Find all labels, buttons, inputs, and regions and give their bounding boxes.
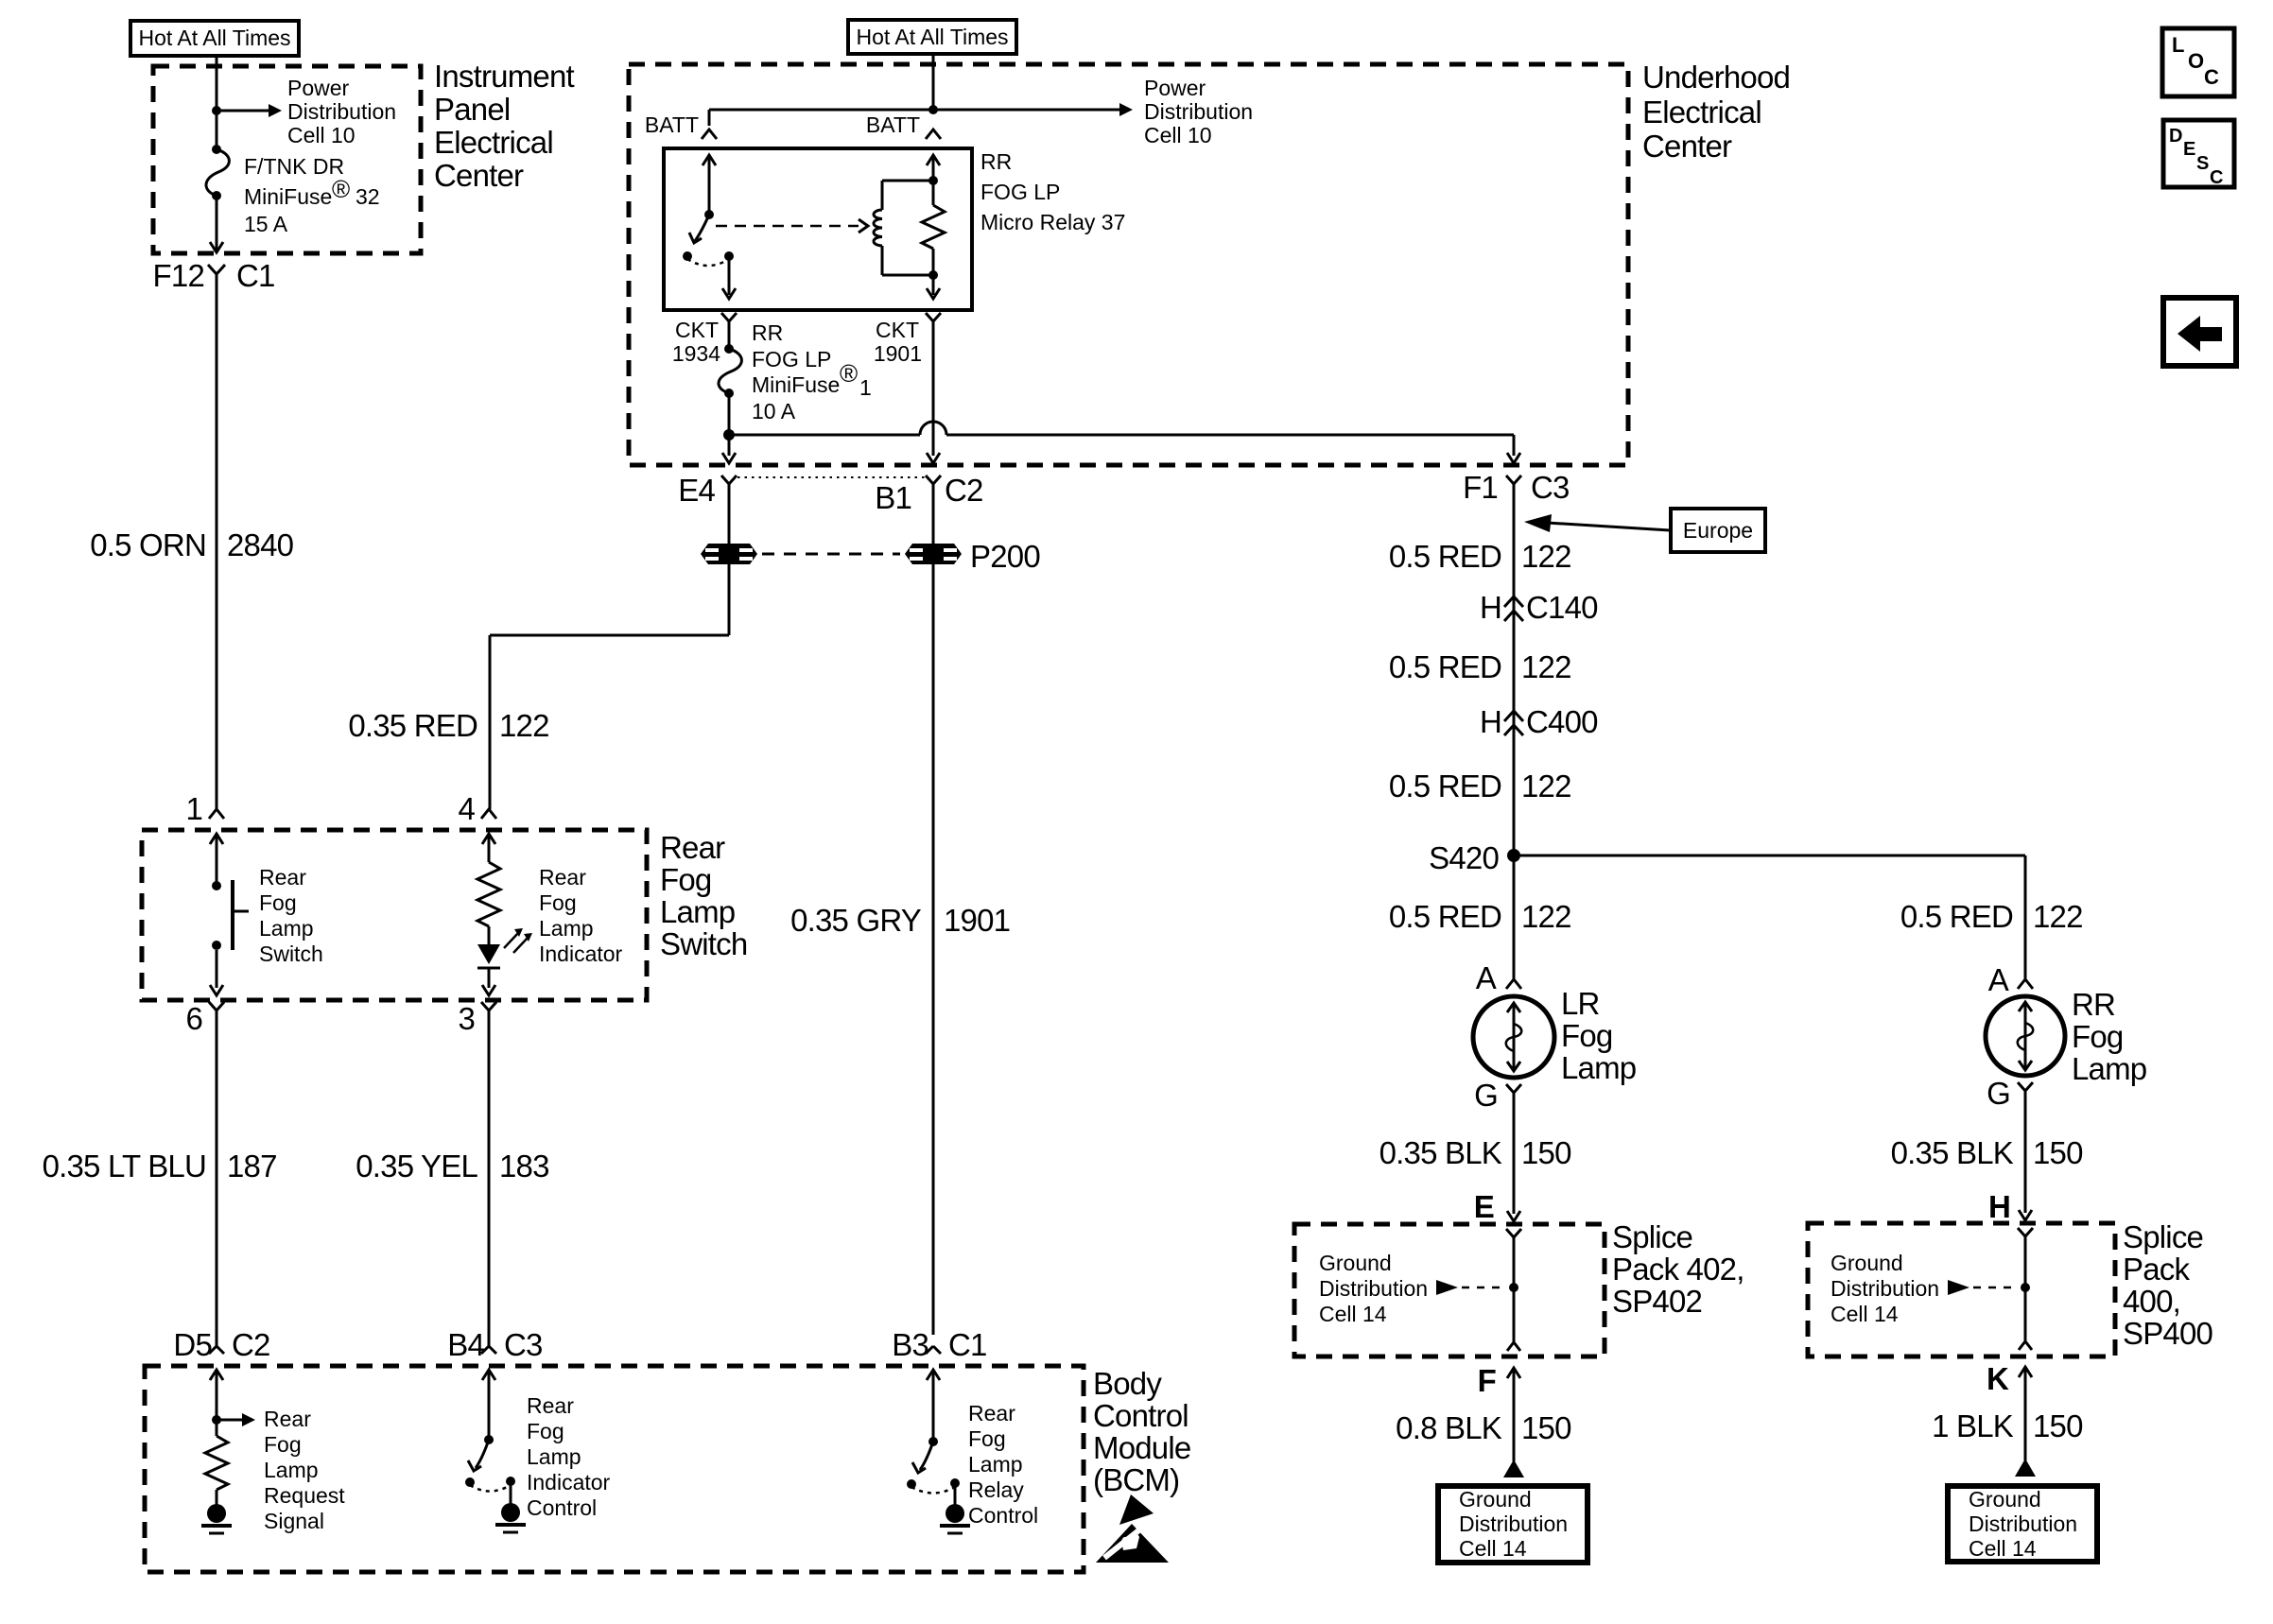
connector pin D5 C2 (173, 1327, 269, 1362)
svg-text:Rear: Rear (259, 865, 306, 890)
svg-text:Europe: Europe (1683, 518, 1753, 543)
svg-text:0.8 BLK: 0.8 BLK (1396, 1410, 1502, 1445)
svg-text:E: E (2183, 139, 2195, 160)
label box Hot At All Times (left) (130, 21, 299, 56)
svg-text:15 A: 15 A (244, 212, 288, 236)
node splice S420 (1429, 840, 1520, 875)
pin A of RR fog lamp (1988, 962, 2033, 997)
svg-text:MiniFuse: MiniFuse (752, 372, 840, 397)
label Ground Distribution Cell 14 (SP400) (1831, 1251, 1939, 1326)
svg-text:Switch: Switch (660, 926, 747, 961)
wire label 0.5 ORN 2840 (90, 527, 293, 562)
node junction dot at fuse feed (212, 106, 221, 115)
svg-text:Electrical: Electrical (434, 125, 553, 160)
svg-text:D: D (2169, 126, 2182, 147)
svg-text:Ground: Ground (1831, 1251, 1903, 1275)
svg-text:0.5 RED: 0.5 RED (1389, 769, 1501, 803)
wire label 0.5 RED 122 (below C400) (1389, 769, 1571, 803)
connector pin B3 C1 (892, 1327, 986, 1362)
inline connector H C400 (1480, 704, 1598, 739)
svg-text:150: 150 (2033, 1408, 2083, 1443)
svg-text:Cell 10: Cell 10 (1144, 123, 1212, 147)
svg-text:1934: 1934 (672, 341, 720, 366)
svg-text:400,: 400, (2123, 1284, 2180, 1319)
wire label 0.5 RED 122 (RR lamp) (1900, 899, 2083, 934)
svg-text:6: 6 (185, 1001, 202, 1036)
svg-text:D5: D5 (173, 1327, 212, 1362)
inline connector P200 right half (905, 544, 962, 564)
icon box LOC (2162, 28, 2234, 96)
pin H of splice pack 400 (1988, 1189, 2010, 1224)
svg-text:Body: Body (1093, 1366, 1162, 1401)
svg-text:Cell 14: Cell 14 (1831, 1302, 1899, 1326)
svg-text:S: S (2196, 153, 2209, 174)
svg-text:Pack: Pack (2123, 1252, 2190, 1287)
svg-text:FOG LP: FOG LP (980, 180, 1060, 204)
svg-text:C140: C140 (1526, 590, 1598, 625)
wire label 0.5 RED 122 (LR lamp) (1389, 899, 1571, 934)
relay coil (874, 181, 933, 275)
pin 3 of rear fog lamp switch (458, 1001, 496, 1036)
value label F/TNK DR MiniFuse 32 15 A (244, 154, 380, 236)
title Rear Fog Lamp Switch (660, 830, 747, 961)
svg-text:1901: 1901 (944, 903, 1010, 938)
svg-text:C400: C400 (1526, 704, 1598, 739)
svg-text:C2: C2 (945, 473, 983, 508)
label box Hot At All Times (center) (848, 20, 1016, 54)
svg-text:K: K (1987, 1361, 2009, 1396)
svg-text:B3: B3 (892, 1327, 928, 1362)
label Power Distribution Cell 10 (center) (1144, 76, 1253, 147)
svg-text:Cell 10: Cell 10 (287, 123, 356, 147)
svg-text:Relay: Relay (968, 1477, 1024, 1502)
svg-text:Ground: Ground (1319, 1251, 1392, 1275)
svg-text:Fog: Fog (968, 1426, 1006, 1451)
wire label 0.5 RED 122 (below C140) (1389, 649, 1571, 684)
svg-text:C: C (2210, 167, 2223, 188)
Instrument Panel Electrical Center dashed box (153, 66, 421, 253)
svg-text:O: O (2188, 49, 2204, 73)
svg-text:0.5 RED: 0.5 RED (1900, 899, 2013, 934)
wire label 0.35 BLK 150 (RR) (1891, 1135, 2083, 1170)
svg-text:L: L (2172, 33, 2184, 57)
wire BATT feed with arrow to Power Distribution Cell 10 (709, 103, 1133, 126)
svg-text:Switch: Switch (259, 942, 323, 966)
svg-text:B1: B1 (875, 480, 911, 515)
request signal resistor branch (BCM) (201, 1370, 255, 1533)
wire LT BLU 187 (216, 1026, 218, 1346)
title Splice Pack 402 SP402 (1612, 1219, 1744, 1319)
svg-text:Distribution: Distribution (1831, 1276, 1939, 1301)
label Power Distribution Cell 10 (left) (287, 76, 396, 147)
wire S420 branch to RR fog lamp (1514, 855, 2025, 979)
svg-text:Fog: Fog (539, 890, 577, 915)
svg-text:1901: 1901 (874, 341, 922, 366)
wire E4 exit arrow (722, 435, 736, 463)
svg-text:Distribution: Distribution (1319, 1276, 1428, 1301)
wire YEL 183 (488, 1026, 491, 1346)
pin BATT right of relay (866, 112, 941, 139)
svg-text:Center: Center (1642, 129, 1732, 164)
relay box RR FOG LP Micro Relay 37 (664, 148, 972, 310)
svg-text:122: 122 (2033, 899, 2083, 934)
svg-text:C: C (2204, 65, 2219, 89)
svg-text:Distribution: Distribution (1969, 1512, 2077, 1536)
svg-text:SP400: SP400 (2123, 1316, 2213, 1351)
svg-text:H: H (1988, 1189, 2010, 1224)
wire label 0.8 BLK 150 (1396, 1410, 1571, 1445)
rear fog lamp switch dashed box (142, 830, 647, 1000)
svg-text:Request: Request (264, 1483, 345, 1508)
svg-text:122: 122 (1521, 539, 1571, 574)
svg-text:CKT: CKT (675, 318, 719, 342)
svg-text:Rear: Rear (264, 1407, 311, 1431)
wire RED 122 from E4 to switch pin 4 (490, 496, 729, 809)
svg-text:1: 1 (859, 375, 872, 400)
svg-text:Pack 402,: Pack 402, (1612, 1252, 1744, 1287)
wire fused feed to F1 with hop over CKT1901 wire (729, 422, 1520, 463)
indicator control switch (BCM) (465, 1370, 526, 1532)
label RR FOG LP Micro Relay 37 (980, 149, 1125, 234)
svg-text:122: 122 (1521, 769, 1571, 803)
svg-text:Hot At All Times: Hot At All Times (856, 25, 1008, 49)
svg-text:Ground: Ground (1459, 1487, 1532, 1512)
svg-text:122: 122 (499, 708, 549, 743)
svg-text:Distribution: Distribution (1459, 1512, 1568, 1536)
svg-text:Rear: Rear (527, 1393, 574, 1418)
pin G of RR fog lamp (1987, 1076, 2033, 1111)
title Splice Pack 400 SP400 (2123, 1219, 2213, 1351)
wire RED 122 right column F1 to S420 (1513, 496, 1516, 979)
svg-text:1 BLK: 1 BLK (1932, 1408, 2014, 1443)
pin E of splice pack 402 (1474, 1189, 1494, 1224)
svg-text:Rear: Rear (968, 1401, 1015, 1425)
wire circuit 2840 (216, 289, 218, 809)
svg-text:0.35 YEL: 0.35 YEL (356, 1149, 477, 1183)
svg-text:Module: Module (1093, 1430, 1190, 1465)
label box Ground Distribution Cell 14 (LR) (1438, 1486, 1588, 1563)
svg-text:LR: LR (1561, 986, 1600, 1021)
value label RR FOG LP MiniFuse 1 10 A (752, 320, 872, 423)
connector pin E4 (678, 473, 737, 508)
svg-text:P200: P200 (970, 539, 1040, 574)
label Rear Fog Lamp Indicator Control (527, 1393, 611, 1520)
svg-text:C2: C2 (232, 1327, 270, 1362)
wire label 0.35 YEL 183 (356, 1149, 548, 1183)
svg-text:Fog: Fog (1561, 1018, 1612, 1053)
svg-text:Lamp: Lamp (1561, 1050, 1636, 1085)
ground triangle (RR branch) (2015, 1459, 2036, 1477)
wire connector dashed link E4 to B1 (737, 476, 925, 478)
connector pin CKT 1901 (874, 313, 941, 366)
label Ground Distribution Cell 14 (SP402) (1319, 1251, 1428, 1326)
svg-text:Fog: Fog (660, 862, 711, 897)
svg-text:E: E (1474, 1189, 1494, 1224)
wire BLK 150 from LR lamp to splice (1507, 1106, 1520, 1221)
label box Ground Distribution Cell 14 (RR) (1948, 1486, 2097, 1562)
svg-text:183: 183 (499, 1149, 549, 1183)
svg-text:Splice: Splice (1612, 1219, 1692, 1254)
splice pack 400 dashed box (1808, 1223, 2115, 1356)
svg-text:122: 122 (1521, 649, 1571, 684)
relay control switch (BCM) (907, 1370, 970, 1533)
wire from Hot At All Times into IP electrical center (216, 56, 218, 149)
svg-text:Instrument: Instrument (434, 59, 575, 94)
title Underhood Electrical Center (1642, 60, 1790, 164)
wire label 1 BLK 150 (1932, 1408, 2083, 1443)
wire GRY 1901 from B1 to BCM (932, 496, 935, 1335)
svg-text:MiniFuse: MiniFuse (244, 184, 332, 209)
svg-text:32: 32 (356, 184, 380, 209)
svg-text:Micro Relay 37: Micro Relay 37 (980, 210, 1125, 234)
splice SP402 internal wire and node (1506, 1229, 1521, 1351)
svg-text:0.35 RED: 0.35 RED (348, 708, 477, 743)
svg-text:3: 3 (458, 1001, 475, 1036)
svg-text:0.35 BLK: 0.35 BLK (1891, 1135, 2014, 1170)
switch contact assembly (rear fog lamp switch) (210, 834, 249, 995)
svg-text:Control: Control (968, 1503, 1038, 1528)
svg-text:Rear: Rear (539, 865, 586, 890)
svg-text:(BCM): (BCM) (1093, 1462, 1179, 1497)
label P200 (970, 539, 1040, 574)
svg-text:150: 150 (1521, 1135, 1571, 1170)
pin G of LR fog lamp (1474, 1078, 1521, 1113)
pin 6 of rear fog lamp switch (185, 1001, 224, 1036)
node junction dot at fused feed (723, 429, 735, 441)
wire label 0.35 GRY 1901 (790, 903, 1010, 938)
relay resistor (922, 176, 945, 280)
wire label 0.5 RED 122 (below F1) (1389, 539, 1571, 574)
svg-text:SP402: SP402 (1612, 1284, 1702, 1319)
icon box DESC (2163, 120, 2234, 188)
svg-text:H: H (1480, 590, 1501, 625)
label LR Fog Lamp (1561, 986, 1636, 1085)
wire CKT1901 down to box edge (927, 335, 940, 463)
fuse RR FOG LP MiniFuse 1 10 A (719, 335, 741, 398)
connector pin B4 C3 (447, 1327, 542, 1362)
svg-text:Rear: Rear (660, 830, 725, 865)
svg-text:C3: C3 (1531, 470, 1570, 505)
svg-text:RR: RR (2072, 987, 2115, 1022)
inline connector H C140 (1480, 590, 1598, 625)
node junction dot BATT feed (928, 105, 938, 114)
lamp RR Fog Lamp (1986, 996, 2065, 1076)
svg-text:Power: Power (287, 76, 350, 100)
svg-text:0.35 LT BLU: 0.35 LT BLU (43, 1149, 206, 1183)
svg-text:Indicator: Indicator (527, 1470, 611, 1494)
wire dashed ground distribution arrow (SP400) (1948, 1280, 2019, 1295)
svg-text:Hot At All Times: Hot At All Times (138, 26, 290, 50)
svg-text:FOG LP: FOG LP (752, 347, 831, 371)
connector pin F12 C1 (153, 258, 275, 293)
Underhood Electrical Center dashed box (629, 64, 1628, 465)
relay switch arm and contacts (683, 155, 736, 299)
svg-text:Fog: Fog (527, 1419, 564, 1443)
wire dashed ground distribution arrow (SP402) (1436, 1280, 1507, 1295)
title Instrument Panel Electrical Center (434, 59, 575, 193)
svg-text:0.35 GRY: 0.35 GRY (790, 903, 922, 938)
svg-text:0.35 BLK: 0.35 BLK (1379, 1135, 1502, 1170)
inline connector P200 left half (701, 544, 757, 564)
pin 1 of rear fog lamp switch (185, 791, 224, 826)
svg-text:F1: F1 (1463, 470, 1498, 505)
label Rear Fog Lamp Relay Control (968, 1401, 1038, 1528)
wire dashed link P200 (762, 553, 900, 556)
svg-text:A: A (1988, 962, 2009, 997)
svg-text:Panel: Panel (434, 92, 510, 127)
wire label 0.35 RED 122 (348, 708, 548, 743)
svg-text:Cell 14: Cell 14 (1319, 1302, 1387, 1326)
svg-text:2840: 2840 (227, 527, 294, 562)
label Rear Fog Lamp Request Signal (264, 1407, 345, 1533)
relay right pin wires and arrows (927, 155, 940, 299)
connector pin CKT 1934 (672, 313, 737, 366)
wire label 0.35 BLK 150 (LR) (1379, 1135, 1571, 1170)
label Rear Fog Lamp Switch (inner) (259, 865, 323, 966)
svg-text:®: ® (332, 175, 350, 203)
svg-text:Fog: Fog (2072, 1019, 2123, 1054)
wire label 0.35 LT BLU 187 (43, 1149, 277, 1183)
svg-text:Ground: Ground (1969, 1487, 2041, 1512)
label box Europe with arrow (1524, 509, 1765, 552)
fuse F/TNK DR MiniFuse 32 15 A (206, 145, 229, 200)
svg-text:Fog: Fog (264, 1432, 302, 1457)
svg-text:122: 122 (1521, 899, 1571, 934)
svg-text:RR: RR (980, 149, 1012, 174)
title Body Control Module (BCM) (1093, 1366, 1190, 1497)
wire BLK 150 from RR lamp to splice (2019, 1104, 2032, 1220)
label RR Fog Lamp (2072, 987, 2146, 1086)
wire from fuse to junction (728, 393, 731, 435)
svg-text:Lamp: Lamp (264, 1458, 319, 1482)
svg-text:Cell 14: Cell 14 (1969, 1536, 2037, 1561)
svg-text:0.5 ORN: 0.5 ORN (90, 527, 206, 562)
svg-text:F12: F12 (153, 258, 204, 293)
svg-text:Center: Center (434, 158, 524, 193)
svg-text:Distribution: Distribution (1144, 99, 1253, 124)
svg-text:150: 150 (2033, 1135, 2083, 1170)
lamp LR Fog Lamp (1473, 996, 1554, 1078)
connector pin B1 C2 (875, 473, 982, 515)
indicator LED with resistor (rear fog lamp switch) (477, 834, 532, 995)
svg-text:A: A (1476, 960, 1497, 995)
svg-text:Control: Control (1093, 1398, 1189, 1433)
svg-text:F: F (1478, 1363, 1496, 1398)
svg-text:Control: Control (527, 1495, 597, 1520)
svg-text:Lamp: Lamp (527, 1444, 581, 1469)
svg-text:0.5 RED: 0.5 RED (1389, 649, 1501, 684)
wire with arrow leaving IP box bottom (210, 196, 223, 252)
relay coil control dashed line (716, 219, 868, 233)
svg-text:BATT: BATT (866, 112, 920, 137)
connector pin F1 C3 (1463, 470, 1570, 505)
svg-text:Fog: Fog (259, 890, 297, 915)
pin F wire up arrow from ground (1478, 1363, 1520, 1461)
label Rear Fog Lamp Indicator (inner) (539, 865, 623, 966)
svg-text:Electrical: Electrical (1642, 95, 1761, 130)
svg-text:CKT: CKT (876, 318, 919, 342)
svg-text:RR: RR (752, 320, 783, 345)
svg-text:Lamp: Lamp (2072, 1051, 2146, 1086)
svg-text:0.5 RED: 0.5 RED (1389, 539, 1501, 574)
svg-text:C1: C1 (236, 258, 275, 293)
svg-text:Underhood: Underhood (1642, 60, 1790, 95)
svg-text:Cell 14: Cell 14 (1459, 1536, 1527, 1561)
wire from Hot At All Times into Underhood center (932, 54, 935, 110)
svg-text:Splice: Splice (2123, 1219, 2203, 1254)
splice pack 402 dashed box (1294, 1224, 1605, 1356)
svg-text:Lamp: Lamp (968, 1452, 1023, 1477)
svg-text:®: ® (840, 359, 858, 388)
svg-text:H: H (1480, 704, 1501, 739)
icon ESD sensitive device (1096, 1494, 1169, 1563)
wire arrow to Power Distribution Cell 10 (left) (217, 104, 282, 117)
svg-text:Indicator: Indicator (539, 942, 623, 966)
svg-text:G: G (1987, 1076, 2010, 1111)
svg-text:E4: E4 (678, 473, 715, 508)
svg-text:Lamp: Lamp (660, 894, 735, 929)
svg-text:Lamp: Lamp (259, 916, 314, 941)
splice SP400 internal wire and node (2018, 1228, 2033, 1350)
svg-text:Power: Power (1144, 76, 1206, 100)
body control module dashed box (145, 1366, 1084, 1572)
pin BATT left of relay (645, 112, 717, 139)
svg-text:F/TNK DR: F/TNK DR (244, 154, 344, 179)
svg-text:1: 1 (185, 791, 202, 826)
svg-text:G: G (1474, 1078, 1498, 1113)
svg-text:4: 4 (458, 791, 475, 826)
ground triangle (LR branch) (1503, 1460, 1524, 1477)
svg-text:C3: C3 (504, 1327, 543, 1362)
icon box back arrow (2163, 298, 2236, 366)
pin A of LR fog lamp (1476, 960, 1521, 995)
svg-text:0.5 RED: 0.5 RED (1389, 899, 1501, 934)
svg-text:10 A: 10 A (752, 399, 796, 423)
pin 4 of rear fog lamp switch (458, 791, 496, 826)
pin K wire up arrow from ground (1987, 1361, 2032, 1460)
svg-text:B4: B4 (447, 1327, 484, 1362)
svg-text:C1: C1 (948, 1327, 987, 1362)
svg-text:Lamp: Lamp (539, 916, 594, 941)
svg-text:Distribution: Distribution (287, 99, 396, 124)
svg-text:BATT: BATT (645, 112, 699, 137)
svg-text:187: 187 (227, 1149, 277, 1183)
svg-text:S420: S420 (1429, 840, 1499, 875)
svg-text:150: 150 (1521, 1410, 1571, 1445)
svg-text:Signal: Signal (264, 1509, 324, 1533)
